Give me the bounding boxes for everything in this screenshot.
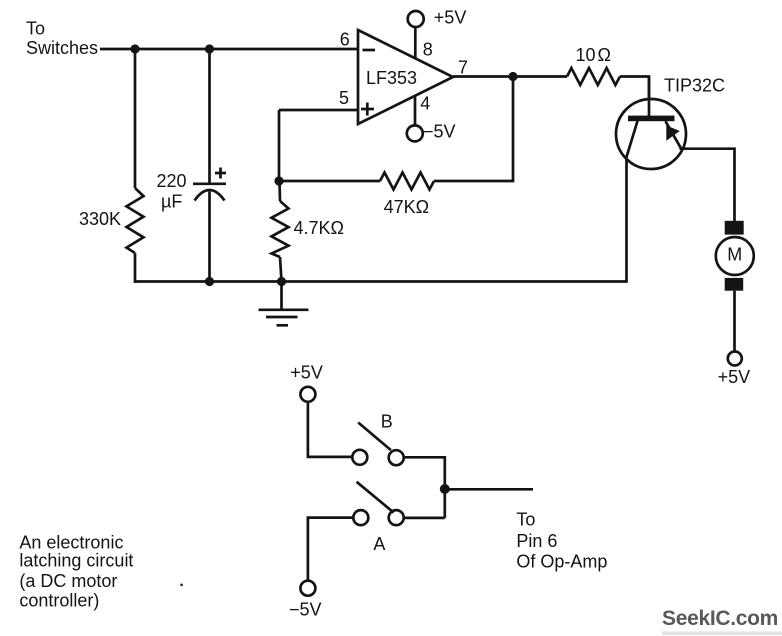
junction: input / capacitor branch (205, 44, 214, 53)
wire: op-amp output (453, 75, 567, 78)
svg-text:To: To (26, 18, 45, 38)
switch A right contact (389, 510, 404, 525)
transistor base bar (628, 116, 675, 122)
motor M1 top terminal block (725, 221, 744, 235)
transistor emitter arrow (666, 126, 680, 141)
svg-text:−5V: −5V (289, 600, 322, 620)
svg-text:6: 6 (340, 29, 350, 49)
terminal: +5V supply circle (408, 11, 424, 27)
resistor R3 47K (380, 173, 434, 190)
svg-text:SeekIC.com: SeekIC.com (662, 607, 778, 630)
junction: input / 330K branch (130, 44, 139, 53)
label: To Pin 6 Of Op-Amp (516, 510, 607, 572)
wire: input net from switches to op-amp pin 6 (100, 48, 358, 51)
svg-text:−5V: −5V (423, 122, 456, 142)
svg-text:+5V: +5V (718, 367, 751, 387)
svg-text:330K: 330K (79, 209, 121, 229)
switch B left contact (352, 450, 367, 465)
capacitor C1 220uF (193, 168, 226, 201)
wire: emitter to motor (680, 149, 735, 221)
junction: pin5 / 4.7K / feedback (274, 176, 283, 185)
op-amp minus input symbol (363, 49, 376, 52)
terminal: +5V motor supply circle (728, 352, 742, 366)
terminal: +5V switch circle (300, 387, 315, 402)
label: 220 uF (157, 171, 187, 212)
svg-text:(a DC motor: (a DC motor (19, 571, 117, 591)
svg-text:Pin 6: Pin 6 (516, 531, 557, 551)
svg-text:LF353: LF353 (366, 68, 417, 88)
terminal: -5V switch circle (300, 581, 315, 596)
svg-text:8: 8 (423, 40, 433, 60)
svg-text:220: 220 (157, 171, 187, 191)
junction: switch output node (440, 484, 450, 494)
svg-text:M: M (727, 245, 742, 265)
terminal: -5V supply circle (407, 125, 423, 141)
svg-text:47KΩ: 47KΩ (384, 197, 429, 217)
junction: output node (508, 72, 517, 81)
wire: junction down to switch A (404, 517, 445, 520)
motor M1 bottom terminal block (725, 278, 744, 291)
wire: capacitor branch lower (208, 192, 211, 282)
wire: motor to +5V terminal (733, 291, 736, 352)
wire: op-amp pin 5 horizontal (279, 109, 358, 112)
wire: junction to 4.7K (278, 181, 281, 201)
svg-text:4.7KΩ: 4.7KΩ (294, 218, 344, 238)
wire: feedback left segment (279, 180, 380, 183)
wire: left branch down to 330K (134, 49, 137, 188)
switch B right contact (389, 450, 404, 465)
svg-text:7: 7 (458, 58, 468, 78)
switch A left contact (353, 510, 368, 525)
svg-text:5: 5 (339, 88, 349, 108)
svg-text:B: B (381, 411, 393, 431)
op-amp plus input symbol (361, 103, 374, 116)
wire: base lead horizontal (620, 77, 649, 100)
transistor emitter lead (666, 121, 682, 149)
wire: pin 4 power lead (414, 96, 417, 126)
resistor R2 4.7K (272, 201, 289, 257)
svg-text:Switches: Switches (26, 38, 98, 58)
svg-text:10Ω: 10Ω (576, 45, 612, 65)
svg-text:4: 4 (420, 93, 430, 113)
wire: capacitor branch upper (208, 49, 211, 183)
svg-text:controller): controller) (19, 591, 99, 611)
svg-text:µF: µF (161, 192, 182, 212)
switch B lever (358, 423, 391, 451)
wire: 4.7K to rail (280, 257, 282, 282)
node: To Switches label (26, 18, 98, 58)
junction: ground / bottom rail (277, 277, 286, 286)
switch A lever (357, 482, 394, 513)
wire: switch A to -5V (308, 518, 353, 581)
svg-text:latching circuit: latching circuit (19, 551, 133, 571)
wire: output stub to the right (445, 488, 533, 491)
svg-text:An electronic: An electronic (19, 533, 123, 553)
wire: pin 5 branch down (278, 110, 281, 181)
wire: feedback right segment (434, 77, 513, 182)
svg-text:Of Op-Amp: Of Op-Amp (516, 552, 607, 572)
label: caption (19, 533, 133, 611)
svg-text:A: A (373, 534, 385, 554)
wire: +5V to switch B (308, 402, 352, 457)
transistor Q1 TIP32C body (616, 99, 686, 169)
svg-text:+5V: +5V (290, 362, 323, 382)
wire: rail to ground (280, 282, 283, 310)
resistor R4 10 ohm (567, 68, 620, 85)
wire: pin 8 power lead (414, 27, 417, 59)
mark: small speck (180, 584, 183, 587)
svg-text:TIP32C: TIP32C (664, 76, 725, 96)
wire: base lead into transistor (648, 77, 651, 117)
wire: 330K to bottom rail (134, 253, 137, 283)
transistor collector lead (627, 121, 638, 283)
op-amp U1 LF353 (358, 30, 453, 124)
svg-text:To: To (516, 510, 535, 530)
wire: bottom rail (134, 280, 627, 283)
junction: capacitor / bottom rail (205, 277, 214, 286)
resistor R1 330K (127, 188, 144, 253)
wire: switch B to junction (404, 457, 445, 518)
logo underline smudge (662, 632, 782, 636)
motor M1 body (716, 237, 754, 275)
ground (259, 310, 309, 326)
svg-text:+5V: +5V (434, 8, 467, 28)
